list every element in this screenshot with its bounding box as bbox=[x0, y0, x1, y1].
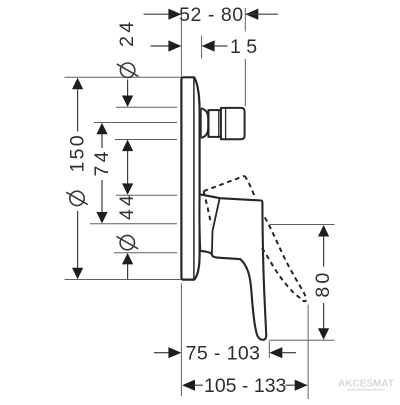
dimension 75-103 bbox=[154, 343, 296, 365]
dashed handle raised grip underside bbox=[262, 248, 303, 300]
wire extension line right x245 top bbox=[244, 8, 246, 32]
svg-text:52 - 80: 52 - 80 bbox=[179, 4, 244, 26]
node tick y77 plate top bbox=[65, 76, 182, 78]
diverter knob cap bbox=[221, 108, 245, 139]
dashed handle raised top edge bbox=[204, 176, 245, 191]
handle lever solid bbox=[199, 194, 266, 339]
svg-text:1 5: 1 5 bbox=[230, 36, 257, 58]
knob neck inner line bbox=[218, 111, 220, 137]
svg-text:75 - 103: 75 - 103 bbox=[186, 343, 261, 365]
node tick y195 bbox=[116, 194, 177, 196]
diverter knob dome bbox=[201, 108, 208, 138]
node tick y122 handle top bbox=[94, 122, 177, 124]
svg-text:44: 44 bbox=[116, 192, 138, 220]
dashed handle raised right edge upper bbox=[245, 176, 255, 196]
node tick y340 right bbox=[269, 339, 334, 341]
wire extension line x308 bottom bbox=[307, 305, 309, 400]
svg-text:150: 150 bbox=[67, 133, 89, 172]
wire extension line x181 bottom bbox=[180, 284, 182, 397]
node tick y252 bbox=[114, 252, 177, 254]
diverter knob neck bbox=[209, 110, 221, 137]
dimension 15 bbox=[151, 36, 258, 58]
node tick y279 plate bottom bbox=[65, 279, 183, 281]
dashed handle raised right edge lower bbox=[265, 218, 306, 302]
svg-text:AKCESMAT: AKCESMAT bbox=[338, 379, 394, 390]
plate rim line bbox=[193, 78, 195, 279]
node tick y223 handle bottom bbox=[90, 223, 177, 225]
dimension D24 column bbox=[116, 19, 139, 184]
wire extension line left x181 top bbox=[180, 8, 182, 77]
wire extension line x269 bottom bbox=[268, 341, 270, 358]
svg-text:80: 80 bbox=[312, 270, 334, 298]
svg-text:74: 74 bbox=[91, 148, 113, 176]
dimension 52-80 bbox=[144, 4, 279, 26]
node tick y139 knob bottom bbox=[115, 139, 177, 141]
svg-text:105 - 133: 105 - 133 bbox=[204, 375, 286, 397]
dimension D150 column bbox=[66, 78, 89, 279]
knob cap inner line bbox=[225, 109, 227, 139]
handle base inner edge bbox=[212, 198, 220, 254]
dimension 105-133 bbox=[182, 375, 308, 397]
escutcheon plate bbox=[181, 77, 199, 279]
svg-text:24: 24 bbox=[116, 19, 138, 47]
node tick y107 knob top bbox=[116, 106, 177, 108]
wire extension line x201 for 15 bbox=[201, 36, 203, 59]
watermark bbox=[338, 379, 394, 391]
dashed handle raised left edge bbox=[204, 191, 212, 224]
node tick y224 right bbox=[270, 224, 335, 226]
dimension D44 column bbox=[116, 183, 138, 279]
dimension 80 column bbox=[312, 225, 334, 340]
dimension 74 column bbox=[91, 123, 113, 224]
